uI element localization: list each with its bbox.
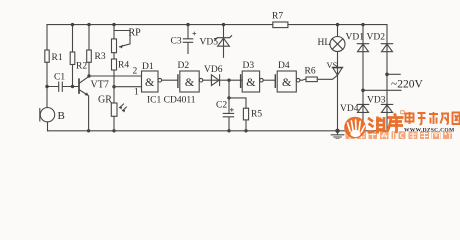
- svg-text:VT7: VT7: [91, 80, 109, 91]
- svg-text:C3: C3: [171, 37, 182, 47]
- svg-text:VD3: VD3: [367, 96, 386, 106]
- svg-text:&: &: [145, 75, 155, 89]
- svg-text:D3: D3: [243, 61, 255, 71]
- svg-text:B: B: [58, 110, 65, 122]
- svg-text:&: &: [185, 75, 195, 89]
- svg-text:VD4: VD4: [340, 104, 359, 114]
- svg-text:R4: R4: [118, 61, 129, 71]
- svg-text:IC1 CD4011: IC1 CD4011: [147, 96, 196, 106]
- svg-text:VD5: VD5: [200, 38, 219, 48]
- svg-text:GR: GR: [98, 95, 112, 106]
- svg-text:D4: D4: [278, 61, 290, 71]
- svg-text:D2: D2: [178, 61, 190, 71]
- svg-text:R1: R1: [52, 53, 63, 63]
- svg-text:VD1: VD1: [346, 33, 365, 43]
- svg-text:VD2: VD2: [367, 33, 386, 43]
- svg-text:C2: C2: [216, 101, 227, 111]
- svg-text:HL: HL: [318, 38, 331, 48]
- svg-text:WWW.DZSC.COM: WWW.DZSC.COM: [404, 127, 455, 133]
- svg-text:2: 2: [133, 67, 138, 77]
- svg-text:R2: R2: [76, 62, 87, 72]
- svg-text:R5: R5: [251, 110, 262, 120]
- svg-text:R3: R3: [95, 52, 106, 62]
- svg-text:~220V: ~220V: [391, 79, 423, 91]
- svg-text:&: &: [246, 75, 256, 89]
- svg-text:RP: RP: [129, 28, 142, 39]
- svg-text:1: 1: [134, 88, 139, 98]
- svg-text:D1: D1: [142, 62, 154, 72]
- svg-text:&: &: [282, 75, 292, 89]
- svg-text:R6: R6: [305, 67, 316, 77]
- svg-text:VD6: VD6: [204, 65, 223, 75]
- svg-text:VS: VS: [327, 60, 338, 70]
- svg-text:R7: R7: [272, 12, 283, 22]
- svg-text:C1: C1: [54, 73, 65, 83]
